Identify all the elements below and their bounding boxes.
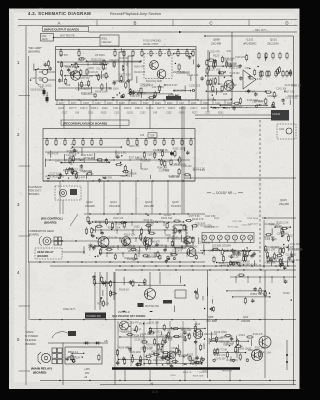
- svg-text:(BOARD): (BOARD): [37, 254, 48, 258]
- svg-text:(BOARD): (BOARD): [28, 232, 39, 236]
- svg-text:C117 1/50: C117 1/50: [232, 221, 243, 223]
- svg-text:C: C: [209, 21, 212, 26]
- svg-text:C45: C45: [227, 51, 232, 53]
- svg-text:C141: C141: [215, 103, 221, 105]
- svg-text:Q103: Q103: [170, 375, 176, 377]
- svg-text:R561 2.2: R561 2.2: [68, 351, 79, 354]
- svg-text:R109 100K: R109 100K: [108, 225, 121, 229]
- svg-text:R152 330: R152 330: [265, 237, 276, 239]
- svg-text:R177: R177: [59, 103, 65, 105]
- svg-text:R188 56K: R188 56K: [157, 167, 168, 169]
- svg-text:Q103: Q103: [190, 251, 196, 253]
- svg-text:C45: C45: [153, 113, 158, 115]
- svg-text:" MAIN": " MAIN": [25, 330, 34, 334]
- svg-text:R201 10K: R201 10K: [187, 359, 198, 361]
- svg-text:C141 104: C141 104: [82, 172, 93, 174]
- svg-text:R134 8.2K: R134 8.2K: [97, 302, 110, 306]
- svg-text:C117: C117: [179, 103, 185, 105]
- svg-text:R201 10K: R201 10K: [257, 105, 268, 107]
- svg-text:C131 0.022: C131 0.022: [209, 90, 223, 94]
- svg-text:(BOARD): (BOARD): [25, 342, 36, 346]
- svg-text:LINE OUT: LINE OUT: [63, 307, 75, 311]
- svg-text:C152 47P: C152 47P: [129, 322, 140, 324]
- svg-text:R109: R109: [203, 103, 209, 105]
- svg-text:C117 1/50: C117 1/50: [209, 227, 220, 229]
- svg-text:C126 223: C126 223: [141, 334, 152, 336]
- svg-text:R109 100K: R109 100K: [153, 360, 165, 362]
- svg-text:R188 56K: R188 56K: [102, 178, 113, 180]
- svg-text:R201 10K: R201 10K: [265, 250, 276, 252]
- svg-text:2SC458: 2SC458: [211, 42, 222, 46]
- svg-text:C152 47P: C152 47P: [284, 247, 295, 249]
- svg-text:2SC2240: 2SC2240: [109, 204, 121, 208]
- svg-text:R109 100K: R109 100K: [129, 352, 141, 354]
- svg-text:R115 2.2K: R115 2.2K: [228, 257, 239, 259]
- svg-text:R140 47K: R140 47K: [113, 81, 124, 83]
- svg-text:R152 330: R152 330: [85, 158, 96, 160]
- svg-text:R168 1K: R168 1K: [119, 288, 129, 292]
- svg-text:C126 223: C126 223: [147, 155, 158, 157]
- svg-text:C109 10/16: C109 10/16: [143, 369, 155, 371]
- svg-text:C131 0.022: C131 0.022: [145, 255, 158, 257]
- svg-text:R115: R115: [191, 103, 197, 105]
- svg-text:C131 0.022: C131 0.022: [115, 152, 128, 154]
- svg-text:C152 4: C152 4: [190, 108, 198, 110]
- svg-text:C126 223: C126 223: [189, 84, 201, 88]
- svg-text:— DOLBY NR —: — DOLBY NR —: [212, 191, 237, 195]
- svg-text:(BOARD): (BOARD): [33, 371, 46, 375]
- svg-text:R123: R123: [214, 218, 220, 220]
- svg-text:Q84 2SC2240 Q57 2SD384: Q84 2SC2240 Q57 2SD384: [112, 314, 146, 318]
- svg-text:C141 104: C141 104: [207, 334, 218, 336]
- svg-text:R134 8.2K: R134 8.2K: [146, 344, 157, 346]
- svg-text:Q103: Q103: [127, 248, 133, 250]
- svg-text:-15V: -15V: [84, 372, 90, 375]
- svg-text:R109 100K: R109 100K: [124, 258, 136, 260]
- svg-text:C126 223: C126 223: [289, 258, 301, 262]
- svg-text:C152 47P: C152 47P: [131, 330, 142, 332]
- svg-text:C117 1/50: C117 1/50: [159, 171, 170, 173]
- svg-text:R123: R123: [187, 353, 194, 357]
- svg-text:C131: C131: [88, 113, 94, 115]
- svg-text:C45: C45: [89, 245, 94, 247]
- svg-text:R177 5.6K: R177 5.6K: [189, 216, 200, 218]
- svg-text:Q103: Q103: [55, 161, 61, 163]
- svg-text:R123: R123: [126, 348, 132, 350]
- svg-text:TOP: TOP: [150, 134, 155, 137]
- svg-text:C117 1/50: C117 1/50: [210, 70, 221, 72]
- svg-text:R152 330: R152 330: [161, 216, 173, 220]
- svg-text:SILENCE: SILENCE: [25, 338, 36, 342]
- svg-text:R134 8.2K: R134 8.2K: [162, 339, 173, 341]
- svg-text:C117 1/50: C117 1/50: [95, 75, 106, 77]
- svg-text:C152: C152: [95, 103, 101, 105]
- svg-text:R123: R123: [288, 236, 294, 238]
- svg-text:R177 5.6K: R177 5.6K: [250, 77, 263, 81]
- svg-text:R123: R123: [107, 103, 113, 105]
- svg-text:(BOARD): (BOARD): [44, 220, 57, 224]
- svg-text:R140 47K: R140 47K: [149, 352, 161, 356]
- svg-text:C117 1/50: C117 1/50: [66, 155, 77, 157]
- svg-text:R115: R115: [101, 113, 107, 115]
- svg-text:C152 47P: C152 47P: [208, 250, 219, 252]
- svg-text:R115 2.2K: R115 2.2K: [292, 249, 303, 251]
- svg-text:AC: AC: [71, 143, 74, 146]
- svg-text:2SC458: 2SC458: [144, 204, 154, 208]
- svg-text:D: D: [285, 21, 288, 26]
- svg-text:C45: C45: [73, 70, 78, 74]
- svg-text:(BOARD): (BOARD): [28, 192, 39, 196]
- svg-text:Q52: Q52: [243, 315, 249, 319]
- svg-text:R188 56K: R188 56K: [224, 251, 235, 253]
- svg-text:C126 223: C126 223: [265, 224, 276, 226]
- svg-text:Q103: Q103: [217, 338, 223, 340]
- svg-text:C126 223: C126 223: [223, 344, 234, 346]
- svg-text:Record/Playback Amp Section: Record/Playback Amp Section: [110, 12, 161, 16]
- svg-text:R177 5.6K: R177 5.6K: [216, 349, 227, 351]
- svg-text:C117 1/50: C117 1/50: [31, 76, 43, 80]
- svg-text:R168 1K: R168 1K: [46, 177, 55, 179]
- svg-text:+B: +B: [104, 339, 108, 343]
- svg-text:R177 5.6K: R177 5.6K: [193, 168, 206, 172]
- svg-text:R177: R177: [71, 103, 77, 105]
- svg-text:C112 473: C112 473: [148, 247, 159, 249]
- svg-text:R168 1K: R168 1K: [272, 248, 281, 250]
- svg-text:(BOARD): (BOARD): [28, 50, 40, 54]
- svg-text:R134 8.2K: R134 8.2K: [48, 154, 59, 156]
- svg-text:C141 104: C141 104: [119, 58, 130, 60]
- svg-text:CN4: CN4: [279, 128, 285, 131]
- svg-text:R201 10K: R201 10K: [69, 356, 81, 360]
- svg-text:C131 0.022: C131 0.022: [285, 85, 298, 87]
- svg-text:COMBINATION HEAD: COMBINATION HEAD: [28, 229, 54, 233]
- svg-text:C117 1/50: C117 1/50: [180, 334, 191, 336]
- svg-text:C152: C152: [166, 113, 172, 115]
- svg-text:R109 100K: R109 100K: [231, 107, 243, 109]
- svg-text:PC1264: PC1264: [171, 204, 181, 208]
- svg-text:R201 10K: R201 10K: [149, 322, 160, 324]
- svg-text:R119 12K: R119 12K: [104, 280, 116, 284]
- svg-text:C141 104: C141 104: [215, 359, 226, 361]
- svg-text:C117 1/50: C117 1/50: [97, 69, 108, 71]
- svg-text:+30V: +30V: [84, 368, 90, 371]
- svg-text:Q105: Q105: [280, 198, 287, 202]
- svg-text:Q103: Q103: [148, 224, 154, 226]
- svg-text:R134: R134: [131, 103, 137, 105]
- svg-text:C109 10/16: C109 10/16: [62, 66, 75, 68]
- svg-text:R140 47K: R140 47K: [253, 334, 264, 336]
- svg-text:R123: R123: [283, 291, 290, 295]
- svg-text:2SA608: 2SA608: [85, 204, 95, 208]
- svg-text:R109 100K: R109 100K: [79, 85, 91, 87]
- svg-text:Q103: Q103: [127, 113, 133, 115]
- svg-text:— REC OUT —: — REC OUT —: [252, 29, 269, 32]
- svg-text:C152: C152: [140, 113, 146, 115]
- svg-text:Q85: Q85: [208, 315, 214, 319]
- svg-text:R152 330: R152 330: [79, 78, 90, 80]
- svg-text:R177 5.6K: R177 5.6K: [228, 227, 239, 229]
- svg-text:Q103: Q103: [134, 227, 140, 229]
- svg-text:C152 47P: C152 47P: [209, 52, 220, 54]
- svg-text:C117 1/50: C117 1/50: [118, 331, 129, 333]
- svg-text:C45: C45: [66, 85, 71, 87]
- svg-text:C117 1/50: C117 1/50: [83, 76, 94, 78]
- svg-text:C126 223: C126 223: [241, 225, 251, 227]
- svg-text:2SC458: 2SC458: [279, 202, 289, 206]
- svg-text:R168 1K: R168 1K: [158, 245, 167, 247]
- svg-text:R177 5.6K: R177 5.6K: [122, 246, 133, 248]
- svg-text:C112 473: C112 473: [165, 330, 176, 332]
- svg-text:R168 1K: R168 1K: [144, 220, 153, 222]
- svg-text:R123: R123: [142, 167, 149, 171]
- svg-text:R152 3: R152 3: [135, 108, 143, 110]
- svg-text:R109 1: R109 1: [179, 108, 187, 110]
- svg-text:C45: C45: [75, 113, 80, 115]
- svg-text:R188 56K: R188 56K: [81, 88, 92, 90]
- svg-text:R123: R123: [155, 103, 161, 105]
- svg-text:C141 104: C141 104: [290, 244, 301, 246]
- svg-text:C117: C117: [205, 113, 211, 115]
- svg-text:R109 1: R109 1: [124, 108, 132, 110]
- svg-text:R177 5.6K: R177 5.6K: [238, 260, 251, 264]
- svg-text:LINE LEV: LINE LEV: [102, 42, 113, 44]
- svg-text:R109 100K: R109 100K: [193, 376, 204, 378]
- svg-text:C131 0.022: C131 0.022: [38, 84, 52, 88]
- svg-text:HEAD RELAY: HEAD RELAY: [37, 250, 54, 254]
- svg-text:C117 1/50: C117 1/50: [284, 91, 295, 93]
- svg-text:C131 0.022: C131 0.022: [82, 94, 95, 96]
- svg-text:2SC2240: 2SC2240: [267, 42, 279, 46]
- svg-text:R115 2.2K: R115 2.2K: [171, 352, 182, 354]
- svg-text:R188 56K: R188 56K: [245, 91, 256, 93]
- svg-text:IF POWER: IF POWER: [25, 334, 38, 338]
- svg-text:Q103: Q103: [83, 103, 89, 105]
- svg-text:[RECORD/PLAYBACK BOARD]: [RECORD/PLAYBACK BOARD]: [63, 121, 107, 125]
- svg-text:C126 223: C126 223: [223, 59, 234, 61]
- svg-text:ITEM OUT: ITEM OUT: [28, 188, 41, 192]
- svg-text:C141 104: C141 104: [187, 73, 199, 77]
- svg-text:Q103: Q103: [110, 200, 117, 204]
- svg-text:R109 1: R109 1: [168, 108, 176, 110]
- svg-text:C126 223: C126 223: [228, 66, 239, 68]
- svg-text:R140: R140: [143, 103, 149, 105]
- svg-text:C112 473: C112 473: [172, 250, 183, 252]
- svg-text:C126 223: C126 223: [235, 57, 246, 59]
- svg-text:R201 10K: R201 10K: [181, 330, 192, 332]
- svg-text:C45: C45: [171, 348, 176, 350]
- svg-text:R152 330: R152 330: [140, 160, 151, 162]
- svg-text:C126 223: C126 223: [146, 257, 157, 259]
- svg-text:C45: C45: [223, 94, 228, 96]
- svg-text:R177 5.6K: R177 5.6K: [129, 157, 140, 159]
- svg-text:Q103: Q103: [58, 108, 64, 110]
- svg-text:C5 10/16: C5 10/16: [95, 54, 105, 57]
- svg-text:C126 223: C126 223: [173, 88, 185, 92]
- svg-text:LEVEL CONT: LEVEL CONT: [143, 43, 159, 46]
- svg-text:Q103: Q103: [194, 324, 200, 326]
- svg-text:C117 1/50: C117 1/50: [152, 85, 164, 89]
- svg-text:C112: C112: [114, 113, 120, 115]
- svg-text:C112 473: C112 473: [54, 177, 65, 179]
- svg-text:R140 47K: R140 47K: [134, 66, 145, 68]
- svg-text:C109 10/16: C109 10/16: [107, 88, 120, 90]
- svg-text:C126 223: C126 223: [134, 338, 146, 342]
- svg-text:C131 0: C131 0: [80, 108, 88, 110]
- svg-text:Q102: Q102: [86, 200, 93, 204]
- svg-text:C117: C117: [62, 113, 68, 115]
- svg-text:R119 12K: R119 12K: [173, 147, 185, 151]
- svg-text:R109 1: R109 1: [212, 108, 220, 110]
- svg-text:C141 104: C141 104: [140, 85, 151, 87]
- svg-text:R134 8.2K: R134 8.2K: [165, 83, 178, 87]
- svg-text:R123: R123: [219, 263, 225, 265]
- svg-text:Q104: Q104: [145, 200, 152, 204]
- svg-text:R109 100K: R109 100K: [226, 63, 238, 65]
- svg-text:C152 47P: C152 47P: [195, 223, 206, 225]
- svg-text:R119 12K: R119 12K: [124, 232, 136, 236]
- svg-text:R115 2: R115 2: [223, 108, 231, 110]
- svg-text:R115 2.2K: R115 2.2K: [69, 153, 80, 155]
- svg-text:R119 12K: R119 12K: [223, 370, 233, 372]
- svg-text:C126 223: C126 223: [153, 148, 165, 152]
- svg-text:CN102: CN102: [272, 112, 281, 116]
- svg-text:R177: R177: [192, 113, 198, 115]
- svg-text:R177 5: R177 5: [157, 108, 165, 110]
- svg-text:C126 223: C126 223: [159, 161, 170, 163]
- svg-text:C141 104: C141 104: [276, 88, 287, 90]
- svg-text:C45: C45: [245, 68, 250, 70]
- svg-text:JACK: JACK: [42, 38, 49, 41]
- svg-text:R140 47K: R140 47K: [150, 241, 161, 243]
- svg-text:Q105: Q105: [172, 200, 179, 204]
- svg-text:C126 223: C126 223: [181, 166, 192, 168]
- svg-text:Q103: Q103: [88, 68, 94, 70]
- svg-text:R201: R201: [218, 113, 224, 115]
- svg-text:R134 8.2K: R134 8.2K: [134, 72, 145, 74]
- svg-text:C131 0.022: C131 0.022: [285, 98, 298, 100]
- svg-text:R123: R123: [213, 54, 220, 58]
- svg-text:R140 47K: R140 47K: [129, 146, 140, 148]
- svg-text:R152 330: R152 330: [227, 85, 238, 87]
- svg-text:R152 330: R152 330: [169, 177, 180, 179]
- svg-text:C117 1/50: C117 1/50: [140, 347, 152, 351]
- svg-text:A: A: [58, 21, 61, 26]
- svg-text:B: B: [134, 21, 137, 26]
- svg-text:C117 1/50: C117 1/50: [252, 101, 263, 103]
- svg-text:C131 0.022: C131 0.022: [81, 155, 94, 157]
- svg-text:POWER SW: POWER SW: [87, 315, 102, 318]
- svg-text:R119 12K: R119 12K: [75, 159, 86, 161]
- svg-text:C109 10/16: C109 10/16: [30, 88, 44, 92]
- svg-text:IC551 TA7317: IC551 TA7317: [250, 292, 268, 296]
- svg-text:C152 47P: C152 47P: [158, 336, 169, 338]
- svg-text:R177 5: R177 5: [69, 108, 77, 110]
- svg-text:+B: +B: [84, 376, 87, 379]
- svg-text:Q103: Q103: [202, 371, 208, 373]
- svg-text:R501: R501: [102, 38, 108, 41]
- svg-text:C126 223: C126 223: [230, 73, 241, 75]
- svg-text:PLAYBACK: PLAYBACK: [28, 185, 42, 189]
- svg-text:C109 10/16: C109 10/16: [247, 218, 259, 220]
- svg-text:C109 10/16: C109 10/16: [277, 233, 290, 235]
- svg-text:WHT RED PB: WHT RED PB: [60, 36, 75, 38]
- svg-text:2SC554-D: 2SC554-D: [118, 311, 130, 314]
- svg-text:R140: R140: [167, 103, 173, 105]
- svg-text:Q103: Q103: [207, 100, 213, 102]
- svg-text:C112 473: C112 473: [214, 353, 226, 357]
- svg-text:R177 5.6K: R177 5.6K: [173, 70, 186, 74]
- svg-text:R123: R123: [102, 108, 108, 110]
- svg-text:R201 10K: R201 10K: [93, 64, 104, 66]
- svg-text:C112 473: C112 473: [109, 60, 120, 62]
- svg-text:MUTING SW: MUTING SW: [145, 305, 160, 308]
- svg-text:R152 330: R152 330: [288, 96, 299, 98]
- svg-text:4.2. SCHEMATIC DIAGRAM: 4.2. SCHEMATIC DIAGRAM: [28, 11, 91, 16]
- svg-text:C112 473: C112 473: [120, 176, 131, 178]
- svg-text:B101 EQ AMP: B101 EQ AMP: [146, 80, 162, 83]
- svg-text:R115 2.2K: R115 2.2K: [265, 263, 276, 265]
- svg-text:[INPUT/OUTPUT BOARD]: [INPUT/OUTPUT BOARD]: [44, 28, 79, 32]
- svg-text:uPC4558C: uPC4558C: [243, 42, 257, 46]
- svg-text:4-9: 4-9: [152, 389, 159, 394]
- svg-text:C45: C45: [78, 61, 83, 63]
- svg-text:R123: R123: [107, 253, 113, 255]
- svg-text:C152 47P: C152 47P: [130, 96, 141, 98]
- svg-text:R140 47K: R140 47K: [113, 218, 124, 220]
- svg-text:R115 2: R115 2: [91, 108, 99, 110]
- svg-text:C141 104: C141 104: [108, 238, 119, 240]
- svg-text:R177 5.6K: R177 5.6K: [119, 73, 132, 77]
- svg-text:C141 104: C141 104: [94, 219, 106, 223]
- svg-text:R7 47K: R7 47K: [60, 54, 68, 57]
- svg-text:R123: R123: [239, 333, 246, 337]
- svg-text:C117 1/50: C117 1/50: [286, 255, 297, 257]
- svg-text:A-B: A-B: [140, 134, 145, 137]
- svg-text:C152 47P: C152 47P: [267, 96, 278, 98]
- svg-text:C117 1/50: C117 1/50: [244, 256, 255, 258]
- svg-text:R168 1K: R168 1K: [183, 372, 192, 374]
